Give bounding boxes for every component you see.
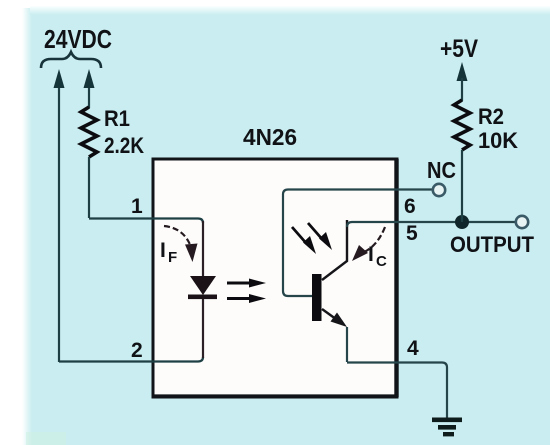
LED D1 cathode bar <box>188 295 217 300</box>
svg-text:NC: NC <box>427 157 456 183</box>
svg-text:5: 5 <box>406 222 418 245</box>
wire: pin 6 / base loop <box>283 190 432 297</box>
wire: pin 4 to ground <box>347 363 447 420</box>
svg-text:C: C <box>376 253 387 270</box>
svg-text:2: 2 <box>131 339 143 362</box>
wire: R1 to pin1 <box>88 157 90 218</box>
light emission arrows (LED to transistor) <box>227 282 252 285</box>
brace under 24VDC <box>41 52 101 68</box>
wire: left supply vertical <box>58 85 60 362</box>
phototransistor collector <box>322 220 347 280</box>
arrow: +5V up arrow <box>457 62 468 81</box>
wire: emitter down to pin4 level <box>346 327 348 362</box>
outer box 4N26 package <box>153 159 397 397</box>
phototransistor emitter <box>322 309 340 322</box>
LED D1 anode lead <box>202 221 204 277</box>
svg-text:R2: R2 <box>478 104 504 129</box>
wire: R2 to junction <box>461 150 463 222</box>
svg-text:I: I <box>160 239 166 262</box>
svg-text:6: 6 <box>404 195 416 218</box>
svg-text:F: F <box>168 249 177 266</box>
svg-text:2.2K: 2.2K <box>104 133 144 158</box>
LED D1 triangle <box>190 276 216 295</box>
junction node <box>455 215 469 229</box>
LED D1 cathode lead <box>202 299 204 358</box>
wire: pin 1 horizontal <box>89 219 203 224</box>
arrow: left supply up arrow <box>54 69 65 88</box>
phototransistor Q1 base bar <box>312 274 322 321</box>
NC terminal circle <box>433 184 445 196</box>
wire: +5V to R2 <box>461 78 463 101</box>
resistor R2 <box>454 100 470 150</box>
svg-text:OUTPUT: OUTPUT <box>450 232 535 257</box>
IF current arrow <box>164 226 191 247</box>
svg-text:I: I <box>368 243 374 266</box>
svg-text:R1: R1 <box>104 106 130 131</box>
IC current arrow <box>362 227 385 253</box>
wire: pin 2 horizontal <box>59 357 203 362</box>
svg-text:24VDC: 24VDC <box>44 24 112 54</box>
svg-text:4: 4 <box>407 337 419 360</box>
resistor R1 <box>81 107 97 157</box>
wire: R1 supply vertical top <box>88 85 90 108</box>
svg-text:10K: 10K <box>478 128 518 153</box>
wire: pin 5 output <box>347 222 515 227</box>
light arrows into phototransistor <box>292 227 306 243</box>
svg-text:4N26: 4N26 <box>243 124 297 150</box>
OUTPUT terminal circle <box>516 216 528 228</box>
svg-text:1: 1 <box>131 195 143 218</box>
ground <box>432 418 462 423</box>
svg-text:+5V: +5V <box>440 35 478 63</box>
arrow: right supply up arrow <box>84 69 95 88</box>
